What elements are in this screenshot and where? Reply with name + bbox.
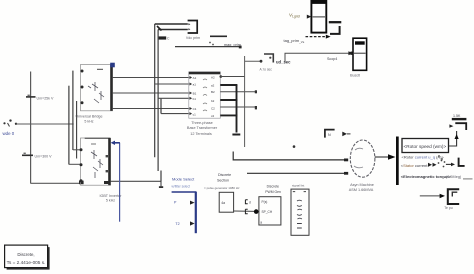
wire jog segment [160, 171, 162, 182]
mode select blue block [172, 192, 197, 233]
label discrete section [204, 173, 240, 190]
wire label line [175, 46, 240, 48]
node wde0 source icon [3, 119, 18, 136]
svg-text:Discrete: Discrete [267, 185, 280, 189]
svg-text:<Rotor speed (wm)>: <Rotor speed (wm)> [404, 144, 447, 149]
wire dc bus vertical 3 [76, 101, 78, 159]
wire U2 bottom out [111, 180, 162, 182]
svg-text:w/filter select: w/filter select [172, 184, 191, 188]
svg-text:a: a [260, 220, 262, 224]
svg-text:IGBT Inverter: IGBT Inverter [99, 194, 122, 198]
wire row3 to L [446, 158, 465, 167]
svg-text:C2: C2 [211, 106, 215, 110]
svg-text:SP_CH: SP_CH [262, 210, 273, 214]
powergui block [5, 245, 50, 270]
transformer T3 three-phase [187, 72, 220, 136]
svg-text:ud_sec: ud_sec [276, 59, 291, 64]
svg-text:ASM 1.66MVA: ASM 1.66MVA [349, 188, 374, 192]
svg-text:Discrete: Discrete [218, 173, 231, 177]
svg-text:<Rotor current u_q (A)>: <Rotor current u_q (A)> [402, 155, 445, 160]
wire bus to U2 in2 [69, 163, 80, 165]
battery B_dn Um=300V [22, 153, 52, 158]
demux row2 rotor current [402, 155, 446, 163]
svg-text:mag_prim: mag_prim [224, 43, 241, 47]
wire feedback vertical V2 [157, 30, 159, 172]
svg-text:c2: c2 [211, 114, 215, 118]
svg-text:(1.5Meg): (1.5Meg) [446, 175, 462, 179]
demux row1 box rotor speed [402, 139, 449, 153]
wire T3 right row6 thick [220, 114, 237, 116]
svg-text:B2: B2 [211, 90, 215, 94]
wire battery string vertical [30, 72, 32, 184]
svg-text:signal list: signal list [292, 183, 305, 187]
wire dc bus vertical 2 [68, 86, 70, 165]
wire dc bus vertical 1 [72, 71, 74, 150]
svg-text:Vdc prim: Vdc prim [186, 36, 200, 40]
wire top to meter in2 [158, 29, 188, 31]
block PWM generator [245, 197, 281, 225]
node dot isolated [293, 145, 296, 148]
svg-text:B1: B1 [193, 92, 197, 96]
svg-text:= pulse generator 1080 Hz: = pulse generator 1080 Hz [204, 186, 240, 190]
svg-text:Te pu: Te pu [444, 206, 452, 210]
svg-text:b2: b2 [211, 99, 215, 103]
block scope list tall [291, 183, 309, 235]
svg-text:A1: A1 [193, 76, 197, 80]
demux row4 torque bold [401, 174, 473, 179]
wire transformer row4 [158, 97, 189, 99]
demux bus selector bar [396, 137, 399, 186]
svg-text:Um=300 V: Um=300 V [35, 154, 53, 158]
svg-text:Mode Select: Mode Select [172, 176, 195, 181]
wire T3 right row4 thick [220, 99, 237, 101]
wire T3 right row5 [220, 106, 256, 108]
arrow dashed tag_prim [284, 35, 331, 44]
machine ASM circle [349, 140, 375, 192]
svg-text:Section: Section [217, 178, 229, 182]
demux row3 stator current [401, 160, 445, 168]
svg-text:b1: b1 [193, 97, 197, 101]
wire stator A [233, 152, 348, 162]
wire U1 out a [113, 77, 190, 79]
wire top to meter in1 [155, 23, 188, 25]
svg-text:C1: C1 [193, 107, 197, 111]
svg-text:1.5K: 1.5K [453, 114, 461, 118]
wire T3 right row3 [220, 91, 256, 93]
goto Te pu [420, 189, 459, 210]
svg-text:wde 0: wde 0 [3, 131, 15, 136]
svg-text:a1: a1 [193, 83, 197, 87]
svg-text:c1: c1 [193, 112, 197, 116]
svg-text:Base Transformer: Base Transformer [187, 126, 218, 130]
wire row1 to goto [449, 131, 457, 146]
wire feedback vertical V3 [160, 98, 162, 114]
svg-text:4a: 4a [221, 201, 225, 205]
label discrete PWM [265, 185, 281, 194]
wire battery bottom return [31, 182, 80, 184]
svg-text:<Electromagnetic torque>: <Electromagnetic torque> [401, 174, 452, 179]
wire transformer row6 [161, 113, 189, 115]
wire blue gate feedback [111, 141, 120, 222]
wire to goto udsec [245, 60, 262, 62]
svg-text:12 Terminals: 12 Terminals [190, 132, 212, 136]
svg-text:Busdt: Busdt [350, 74, 361, 78]
wire neutral vertical thick [236, 85, 238, 133]
block C selector [219, 192, 233, 212]
wire stator B [247, 172, 348, 175]
svg-text:P(s): P(s) [262, 200, 268, 204]
scope T1 top [289, 0, 326, 33]
svg-text:Um=25k V: Um=25k V [37, 96, 54, 100]
wire to scope T2 [285, 52, 353, 63]
scope T2 [348, 38, 366, 77]
wire T3 right row2 thick [220, 84, 237, 86]
ground G1 [232, 134, 240, 136]
svg-text:PWM Gen: PWM Gen [265, 190, 281, 194]
mode select blue labels [172, 176, 196, 188]
wire U1 out c [113, 108, 190, 110]
wire transformer row2 [155, 83, 190, 85]
goto bracket G1 top [329, 22, 342, 34]
from tag N torque [325, 130, 351, 138]
wire sec vertical [244, 56, 246, 147]
wire dash segment [210, 35, 227, 37]
wire machine output m [375, 154, 396, 159]
wire bus to U2 in1 [73, 149, 80, 151]
svg-text:Discrete,: Discrete, [17, 252, 34, 257]
svg-text:Universal Bridge: Universal Bridge [75, 115, 102, 119]
meter VM small block top [186, 21, 200, 41]
svg-text:Three-phase: Three-phase [191, 121, 213, 125]
goto tag wm filled [159, 36, 167, 39]
goto udsec bracket [260, 54, 292, 71]
wire T3 right row1 [220, 75, 245, 78]
svg-text:A: to sec: A: to sec [260, 67, 273, 71]
transformer port rows left marks [190, 76, 197, 116]
svg-text:d: d [249, 201, 251, 205]
wire U1 out b [113, 92, 190, 94]
goto tag w [449, 114, 466, 130]
svg-text:5 kHz: 5 kHz [84, 120, 93, 124]
svg-text:a2: a2 [211, 83, 215, 87]
converter U1 universal bridge [75, 63, 114, 124]
svg-text:T2: T2 [175, 222, 179, 226]
svg-text:Ts = 2.441e-005 s.: Ts = 2.441e-005 s. [7, 260, 46, 265]
wire dc source horizontal [16, 123, 74, 125]
label mag_prim [209, 42, 241, 47]
wire feedback vertical V1 [154, 24, 156, 157]
svg-text:Asyn Machine: Asyn Machine [350, 183, 374, 187]
svg-text:A2: A2 [211, 76, 215, 80]
ground G2 [159, 181, 163, 187]
svg-text:N: N [328, 133, 331, 137]
svg-text:<Stator current>: <Stator current> [401, 163, 431, 168]
svg-text:Scop4: Scop4 [327, 57, 337, 61]
battery B_up Um=25kV [26, 95, 54, 100]
wire C to PWM [234, 210, 259, 212]
converter U2 igbt bridge [80, 138, 123, 203]
svg-text:5 kHz: 5 kHz [106, 199, 115, 203]
transformer port rows right marks [203, 76, 215, 119]
